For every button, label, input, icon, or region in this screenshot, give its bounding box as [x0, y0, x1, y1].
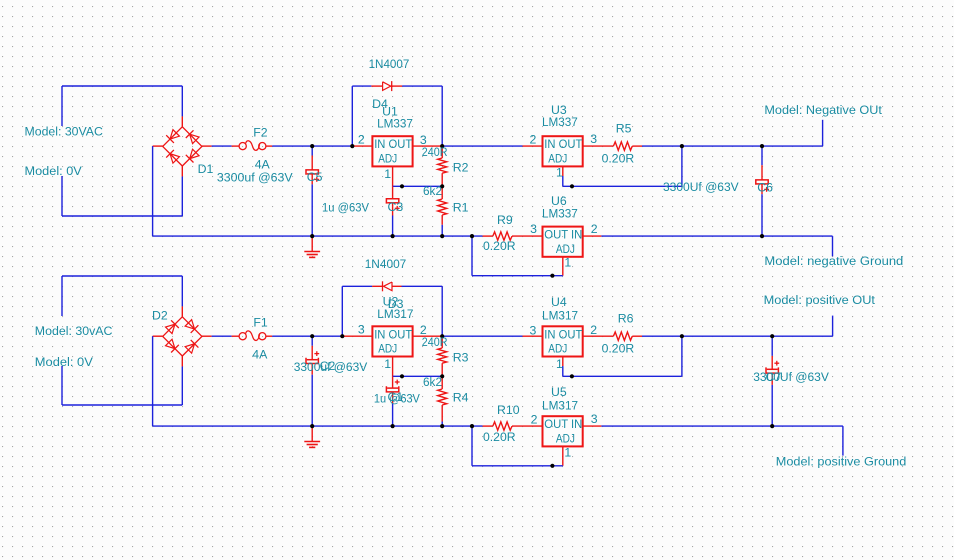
svg-text:LM317: LM317: [542, 398, 578, 412]
svg-text:F2: F2: [253, 126, 268, 140]
svg-text:LM337: LM337: [542, 206, 578, 220]
svg-text:LM337: LM337: [542, 115, 578, 129]
svg-text:Model: positive OUt: Model: positive OUt: [764, 293, 876, 307]
svg-text:R1: R1: [453, 201, 469, 215]
svg-text:1N4007: 1N4007: [365, 257, 407, 271]
svg-text:C3: C3: [388, 200, 404, 214]
svg-text:C2: C2: [320, 359, 336, 373]
svg-text:ADJ: ADJ: [548, 342, 567, 356]
svg-text:F1: F1: [253, 316, 268, 330]
svg-text:2: 2: [590, 323, 597, 337]
svg-text:0.20R: 0.20R: [483, 239, 516, 253]
svg-text:6k2: 6k2: [423, 184, 442, 198]
svg-text:C5: C5: [307, 170, 323, 184]
svg-text:ADJ: ADJ: [556, 432, 575, 446]
svg-text:0.20R: 0.20R: [602, 341, 635, 355]
svg-text:Model: 30VAC: Model: 30VAC: [25, 125, 104, 139]
svg-text:R10: R10: [497, 403, 520, 417]
svg-text:ADJ: ADJ: [548, 152, 567, 166]
svg-text:1: 1: [556, 166, 563, 180]
svg-text:Model: 0V: Model: 0V: [25, 164, 83, 178]
svg-text:OUT IN: OUT IN: [544, 417, 582, 431]
svg-text:6k2: 6k2: [423, 375, 442, 389]
svg-text:1: 1: [556, 357, 563, 371]
svg-text:2: 2: [531, 412, 538, 426]
svg-text:ADJ: ADJ: [378, 342, 397, 356]
svg-text:LM337: LM337: [377, 117, 413, 131]
svg-text:2: 2: [591, 222, 598, 236]
svg-text:3: 3: [530, 324, 537, 338]
svg-text:U5: U5: [551, 385, 567, 399]
svg-text:1u @63V: 1u @63V: [322, 201, 370, 215]
svg-text:LM317: LM317: [377, 307, 413, 321]
svg-text:D1: D1: [198, 162, 214, 176]
svg-text:1: 1: [384, 357, 391, 371]
svg-text:R3: R3: [453, 351, 469, 365]
svg-text:1: 1: [564, 446, 571, 460]
svg-text:1: 1: [564, 256, 571, 270]
svg-text:IN OUT: IN OUT: [544, 327, 582, 341]
svg-text:Model: 0V: Model: 0V: [35, 355, 94, 369]
svg-text:IN OUT: IN OUT: [544, 137, 582, 151]
svg-text:2: 2: [530, 133, 537, 147]
svg-text:240R: 240R: [422, 145, 448, 159]
svg-text:Model: positive Ground: Model: positive Ground: [776, 454, 907, 468]
svg-text:0.20R: 0.20R: [602, 151, 635, 165]
svg-text:1N4007: 1N4007: [369, 57, 410, 71]
svg-text:OUT IN: OUT IN: [544, 228, 582, 242]
svg-text:Model: negative Ground: Model: negative Ground: [764, 254, 903, 268]
svg-text:R2: R2: [453, 161, 469, 175]
svg-text:2: 2: [358, 132, 365, 146]
svg-text:R9: R9: [497, 213, 513, 227]
svg-text:ADJ: ADJ: [378, 152, 397, 166]
svg-text:1: 1: [384, 167, 391, 181]
svg-text:3: 3: [358, 322, 365, 336]
svg-text:R5: R5: [616, 122, 632, 136]
svg-text:R4: R4: [453, 391, 469, 405]
svg-text:3: 3: [590, 132, 597, 146]
svg-text:IN OUT: IN OUT: [374, 137, 412, 151]
svg-text:C7: C7: [766, 370, 782, 384]
svg-text:3: 3: [530, 222, 537, 236]
svg-text:3: 3: [591, 412, 598, 426]
svg-text:0.20R: 0.20R: [483, 430, 516, 444]
svg-text:U4: U4: [551, 295, 567, 309]
svg-text:3300Uf @63V: 3300Uf @63V: [663, 180, 739, 194]
svg-text:ADJ: ADJ: [556, 242, 575, 256]
svg-text:C6: C6: [757, 180, 773, 194]
svg-text:Model: 30vAC: Model: 30vAC: [35, 324, 113, 338]
svg-text:D2: D2: [152, 308, 168, 322]
svg-text:Model: Negative OUt: Model: Negative OUt: [764, 103, 882, 117]
svg-text:C1: C1: [388, 390, 404, 404]
svg-text:4A: 4A: [252, 348, 268, 362]
svg-text:3300uf @63V: 3300uf @63V: [217, 170, 294, 184]
svg-text:IN OUT: IN OUT: [374, 327, 412, 341]
svg-text:R6: R6: [618, 312, 634, 326]
svg-text:240R: 240R: [422, 335, 448, 349]
svg-text:LM317: LM317: [542, 309, 578, 323]
